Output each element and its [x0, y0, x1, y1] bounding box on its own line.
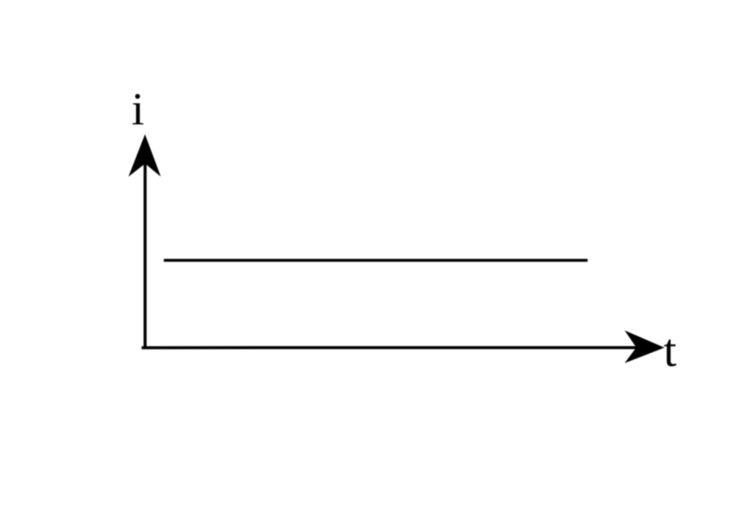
y-axis arrowhead	[128, 134, 160, 177]
node i (y-axis label)	[132, 94, 143, 124]
x-axis arrowhead	[625, 330, 665, 363]
wire constant current i(t) trace	[164, 259, 588, 262]
wire y-axis (i axis)	[144, 140, 147, 348]
node t (x-axis label)	[664, 339, 676, 366]
wire x-axis (t axis)	[142, 346, 659, 349]
